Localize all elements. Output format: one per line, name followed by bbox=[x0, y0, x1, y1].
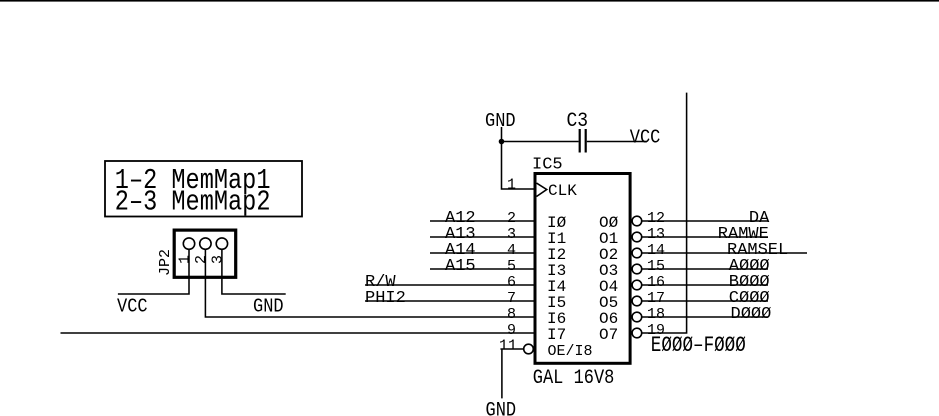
wire pin13 RAMWE bbox=[642, 236, 768, 238]
wire A14 to pin4 bbox=[430, 252, 536, 254]
pin 12 inversion bubble bbox=[632, 216, 642, 226]
svg-text:C3: C3 bbox=[567, 109, 589, 132]
wire A12 to pin2 bbox=[430, 220, 536, 222]
pin 17 inversion bubble bbox=[632, 296, 642, 306]
svg-text:1: 1 bbox=[507, 177, 516, 194]
svg-text:7: 7 bbox=[507, 290, 516, 307]
svg-text:18: 18 bbox=[647, 306, 665, 323]
wire junction to capacitor bbox=[502, 141, 579, 143]
wire to IC pin9 bbox=[61, 332, 537, 334]
svg-text:6: 6 bbox=[507, 274, 516, 291]
svg-text:VCC: VCC bbox=[630, 127, 661, 148]
svg-text:16: 16 bbox=[647, 274, 665, 291]
clock input triangle bbox=[537, 183, 547, 196]
svg-text:8: 8 bbox=[507, 306, 516, 323]
pin 18 inversion bubble bbox=[632, 312, 642, 322]
svg-text:2: 2 bbox=[193, 255, 210, 264]
svg-text:5: 5 bbox=[507, 258, 516, 275]
svg-text:GND: GND bbox=[485, 111, 516, 132]
svg-text:4: 4 bbox=[507, 242, 516, 259]
svg-text:9: 9 bbox=[507, 322, 516, 339]
svg-text:DØØØ: DØØØ bbox=[731, 305, 772, 324]
svg-text:A15: A15 bbox=[445, 257, 476, 276]
wire GND down to pin1 bbox=[502, 127, 537, 189]
wire pin19 to vertical net bbox=[642, 93, 687, 333]
svg-text:CLK: CLK bbox=[548, 182, 577, 200]
wire R/W to pin6 bbox=[365, 284, 536, 286]
wire A15 to pin5 bbox=[430, 268, 536, 270]
wire capacitor to VCC bbox=[587, 141, 647, 143]
svg-text:12: 12 bbox=[647, 210, 665, 227]
capacitor C3 plate right bbox=[585, 129, 587, 153]
capacitor C3 plate left bbox=[579, 129, 581, 153]
svg-text:IC5: IC5 bbox=[532, 156, 563, 175]
svg-text:PHI2: PHI2 bbox=[365, 289, 406, 308]
wire pin12 DA bbox=[642, 220, 768, 222]
wire A13 to pin3 bbox=[430, 236, 536, 238]
wire pin11 to GND bbox=[502, 349, 524, 398]
svg-text:13: 13 bbox=[647, 226, 665, 243]
svg-text:15: 15 bbox=[647, 258, 665, 275]
wire pin18 D000 bbox=[642, 316, 768, 318]
svg-text:O7: O7 bbox=[599, 326, 618, 344]
svg-text:17: 17 bbox=[647, 290, 665, 307]
svg-text:I7: I7 bbox=[547, 326, 566, 344]
svg-text:2: 2 bbox=[507, 210, 516, 227]
op IC5 body bbox=[535, 174, 630, 364]
svg-text:GAL 16V8: GAL 16V8 bbox=[533, 367, 615, 390]
wire JP2 pin2 to IC pin8 bbox=[205, 249, 536, 317]
svg-text:OE/I8: OE/I8 bbox=[548, 343, 593, 360]
svg-text:JP2: JP2 bbox=[157, 249, 174, 276]
svg-text:EØØØ–FØØØ: EØØØ–FØØØ bbox=[651, 332, 746, 357]
svg-text:3: 3 bbox=[507, 226, 516, 243]
JP2 pad 3 bbox=[216, 238, 227, 249]
JP2 pad 2 bbox=[200, 238, 211, 249]
wire pin16 B000 bbox=[642, 284, 768, 286]
pin 16 inversion bubble bbox=[632, 280, 642, 290]
svg-text:3: 3 bbox=[210, 255, 227, 264]
pin 13 inversion bubble bbox=[632, 232, 642, 242]
svg-text:1: 1 bbox=[177, 255, 194, 264]
note box MemMap bbox=[105, 161, 302, 217]
jumper JP2 body bbox=[174, 230, 236, 277]
wire pin15 A000 bbox=[642, 268, 768, 270]
pin 11 inversion bubble bbox=[524, 344, 534, 354]
svg-text:GND: GND bbox=[253, 296, 284, 317]
wire JP2 pin1 to VCC bbox=[118, 249, 189, 294]
svg-text:GND: GND bbox=[486, 398, 517, 416]
pin 19 inversion bubble bbox=[632, 328, 642, 338]
wire pin14 RAMSEL bbox=[642, 252, 807, 254]
wire JP2 pin3 to GND bbox=[222, 249, 286, 294]
JP2 pad 1 bbox=[183, 238, 194, 249]
pin 14 inversion bubble bbox=[632, 248, 642, 258]
wire pin17 C000 bbox=[642, 300, 768, 302]
frame top border bbox=[0, 0, 939, 2]
svg-text:VCC: VCC bbox=[117, 296, 148, 317]
svg-text:2–3 MemMap2: 2–3 MemMap2 bbox=[115, 186, 271, 219]
svg-text:14: 14 bbox=[647, 242, 665, 259]
junction node bbox=[499, 139, 505, 145]
wire PHI2 to pin7 bbox=[365, 300, 536, 302]
pin 15 inversion bubble bbox=[632, 264, 642, 274]
